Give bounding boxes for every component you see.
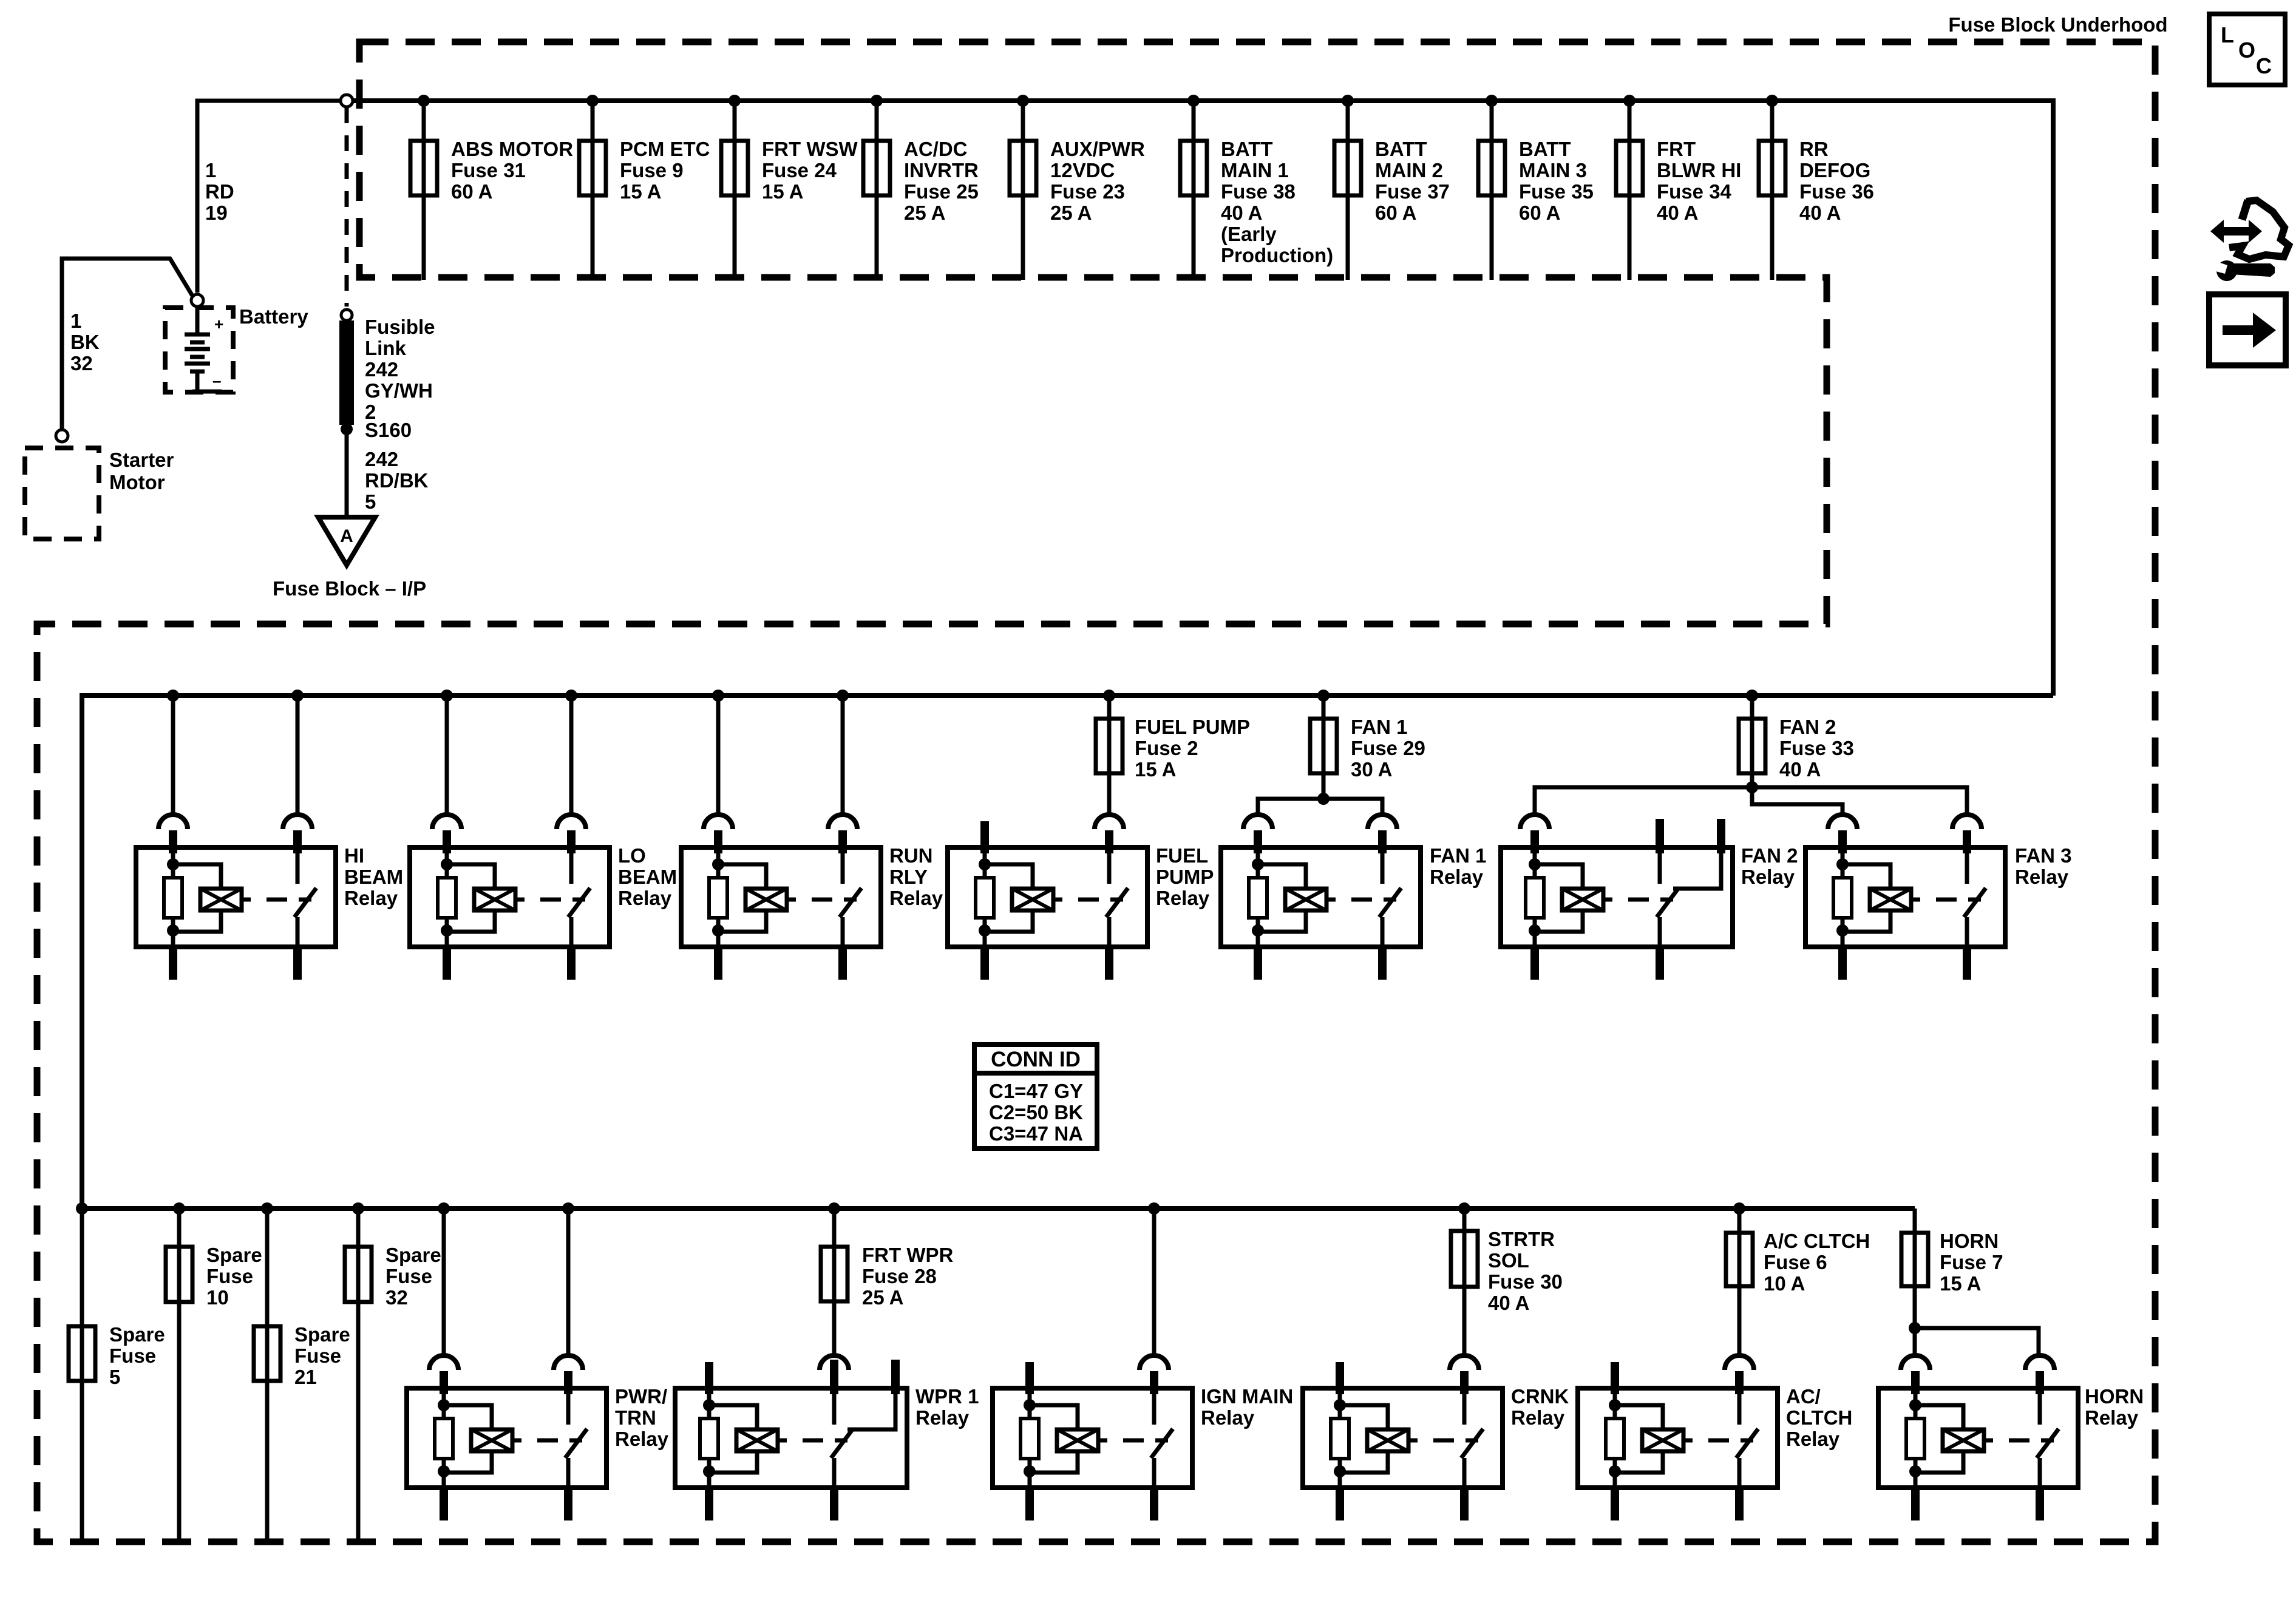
svg-text:C1=47 GY: C1=47 GY <box>989 1080 1083 1102</box>
node bus at HI BEAM coil <box>167 690 179 702</box>
svg-text:Relay: Relay <box>2015 866 2069 888</box>
svg-text:PWR/: PWR/ <box>615 1385 667 1408</box>
node top bus at BATT MAIN 1 fuse 38 <box>1187 95 1200 107</box>
svg-text:(Early: (Early <box>1221 223 1277 245</box>
svg-text:CONN ID: CONN ID <box>991 1048 1081 1071</box>
svg-text:60 A: 60 A <box>1519 202 1560 224</box>
wire and RR DEFOG fuse 36 <box>1759 101 1785 280</box>
node bus at RUN RLY switch <box>837 690 849 702</box>
svg-text:FAN 2: FAN 2 <box>1779 716 1836 738</box>
svg-text:INVRTR: INVRTR <box>904 159 979 181</box>
node bus at spare fuse 21 column <box>261 1202 273 1215</box>
node top bus at PCM ETC fuse 9 <box>586 95 599 107</box>
wire and AUX/PWR 12VDC fuse 23 <box>1010 101 1036 280</box>
node top bus at FRT WSW fuse 24 <box>729 95 741 107</box>
svg-text:Fuse 29: Fuse 29 <box>1351 737 1425 759</box>
svg-text:242: 242 <box>365 448 398 470</box>
svg-text:Relay: Relay <box>618 887 672 909</box>
svg-text:MAIN 3: MAIN 3 <box>1519 159 1587 181</box>
wire and HORN fuse 7 <box>1901 1209 1928 1355</box>
node bus at PWR/TRN switch <box>562 1202 574 1215</box>
svg-text:Fuse 7: Fuse 7 <box>1940 1251 2003 1273</box>
svg-text:Fuse 34: Fuse 34 <box>1657 180 1732 203</box>
svg-text:MAIN 1: MAIN 1 <box>1221 159 1289 181</box>
node battery positive terminal (open circle) <box>191 294 203 307</box>
wire 1 BK 32 starter to battery <box>62 259 193 429</box>
node splice on top bus (open circle) <box>341 95 353 107</box>
node top bus at BATT MAIN 2 fuse 37 <box>1342 95 1354 107</box>
svg-text:BATT: BATT <box>1221 138 1273 160</box>
svg-text:FAN 3: FAN 3 <box>2015 844 2072 867</box>
wire bus to RUN RLY switch <box>841 696 845 815</box>
svg-text:Relay: Relay <box>1741 866 1795 888</box>
svg-text:C: C <box>2256 53 2272 78</box>
node bus at HI BEAM switch <box>291 690 304 702</box>
wire and Spare Fuse 32 <box>345 1209 372 1540</box>
svg-text:Starter: Starter <box>109 449 174 471</box>
relay CRNK <box>1303 1355 1503 1520</box>
svg-text:25 A: 25 A <box>904 202 945 224</box>
svg-text:Fuse: Fuse <box>109 1344 156 1367</box>
wire and FRT WSW fuse 24 <box>721 101 748 280</box>
node bus at LO BEAM coil <box>441 690 453 702</box>
svg-text:10: 10 <box>206 1286 229 1309</box>
wire and A/C CLTCH fuse 6 <box>1726 1209 1753 1355</box>
wire battery positive to top bus <box>197 101 341 293</box>
node bus at PWR/TRN coil <box>438 1202 450 1215</box>
svg-text:5: 5 <box>365 490 376 513</box>
svg-text:Spare: Spare <box>109 1323 165 1346</box>
relay FAN 1 <box>1221 815 1421 980</box>
node bus at spare fuse 5 column <box>76 1202 88 1215</box>
wire bus to PWR/TRN coil <box>442 1209 446 1355</box>
svg-text:Fuse 28: Fuse 28 <box>862 1265 937 1287</box>
wire top bus from splice to right end <box>353 98 2053 103</box>
svg-text:ABS MOTOR: ABS MOTOR <box>451 138 573 160</box>
svg-text:Relay: Relay <box>915 1406 970 1429</box>
fusible link 242 element (thick bar) <box>339 320 354 425</box>
node bus at FAN 2 fuse 33 <box>1746 690 1758 702</box>
svg-text:19: 19 <box>205 202 228 224</box>
svg-text:Fuse 9: Fuse 9 <box>620 159 684 181</box>
svg-text:Fuse 38: Fuse 38 <box>1221 180 1296 203</box>
svg-text:Relay: Relay <box>1201 1406 1255 1429</box>
svg-text:Link: Link <box>365 337 406 359</box>
svg-text:WPR 1: WPR 1 <box>915 1385 979 1408</box>
relay RUN RLY <box>681 815 881 980</box>
svg-text:Relay: Relay <box>1786 1428 1840 1450</box>
svg-text:Fuse Block Underhood: Fuse Block Underhood <box>1948 13 2167 36</box>
svg-text:BLWR HI: BLWR HI <box>1657 159 1741 181</box>
off-page arrow box icon <box>2209 294 2286 365</box>
node top bus at AC/DC INVRTR fuse 25 <box>871 95 883 107</box>
svg-text:PCM ETC: PCM ETC <box>620 138 710 160</box>
svg-text:Relay: Relay <box>615 1428 669 1450</box>
svg-text:MAIN 2: MAIN 2 <box>1375 159 1443 181</box>
svg-text:AC/: AC/ <box>1786 1385 1821 1408</box>
svg-text:40 A: 40 A <box>1799 202 1841 224</box>
svg-text:32: 32 <box>385 1286 408 1309</box>
svg-text:–: – <box>212 371 221 390</box>
node below fuse 33 <box>1746 781 1758 793</box>
svg-text:RLY: RLY <box>889 866 928 888</box>
node S160 <box>341 423 353 435</box>
svg-text:CLTCH: CLTCH <box>1786 1406 1852 1429</box>
svg-text:O: O <box>2238 38 2255 63</box>
wire and FAN 2 fuse 33 <box>1739 696 1765 787</box>
svg-text:A: A <box>340 526 353 546</box>
svg-text:FRT WPR: FRT WPR <box>862 1244 953 1266</box>
svg-text:1: 1 <box>205 159 216 181</box>
service icon double arrow with part outline and wrench <box>2210 220 2262 243</box>
svg-text:BK: BK <box>70 331 100 353</box>
svg-text:Fuse 33: Fuse 33 <box>1779 737 1854 759</box>
svg-text:Spare: Spare <box>206 1244 262 1266</box>
svg-text:FAN 2: FAN 2 <box>1741 844 1798 867</box>
wire bus to PWR/TRN switch <box>566 1209 571 1355</box>
svg-text:FRT WSW: FRT WSW <box>762 138 858 160</box>
svg-text:32: 32 <box>70 352 93 375</box>
wire and BATT MAIN 1 fuse 38 <box>1180 101 1207 280</box>
node bus at FAN 1 fuse 29 <box>1317 690 1330 702</box>
lower feed bus wire <box>82 1206 1915 1211</box>
svg-text:Relay: Relay <box>344 887 398 909</box>
wire and FRT WPR fuse 28 <box>821 1209 847 1355</box>
node bus at FUEL PUMP fuse 2 <box>1103 690 1115 702</box>
wire and FAN 1 fuse 29 <box>1310 696 1337 799</box>
svg-text:L: L <box>2221 22 2234 47</box>
svg-text:Relay: Relay <box>1156 887 1210 909</box>
svg-text:60 A: 60 A <box>451 180 492 203</box>
relay LO BEAM <box>410 815 610 980</box>
svg-text:15 A: 15 A <box>620 180 661 203</box>
node bus at A/C CLTCH fuse 6 <box>1733 1202 1745 1215</box>
svg-text:242: 242 <box>365 358 398 381</box>
svg-text:RR: RR <box>1799 138 1829 160</box>
node top bus at AUX/PWR 12VDC fuse 23 <box>1017 95 1029 107</box>
svg-text:TRN: TRN <box>615 1406 656 1429</box>
svg-text:HORN: HORN <box>2085 1385 2144 1408</box>
svg-text:Battery: Battery <box>239 305 308 328</box>
LOC legend box <box>2209 14 2285 85</box>
svg-text:Fusible: Fusible <box>365 316 435 338</box>
svg-text:FRT: FRT <box>1657 138 1696 160</box>
relay FAN 2 <box>1501 815 1733 980</box>
svg-text:40 A: 40 A <box>1221 202 1262 224</box>
svg-text:40 A: 40 A <box>1779 758 1821 781</box>
node top bus at FRT BLWR HI fuse 34 <box>1623 95 1635 107</box>
relay HORN <box>1878 1355 2078 1520</box>
svg-text:Fuse 36: Fuse 36 <box>1799 180 1874 203</box>
relay IGN MAIN <box>993 1355 1192 1520</box>
wire top bus right drop to relay bus <box>2051 98 2056 696</box>
svg-text:1: 1 <box>70 310 81 332</box>
svg-text:FAN 1: FAN 1 <box>1430 844 1487 867</box>
wire bus to LO BEAM coil <box>445 696 449 815</box>
svg-text:Fuse 23: Fuse 23 <box>1050 180 1125 203</box>
relay HI BEAM <box>136 815 336 980</box>
svg-text:25 A: 25 A <box>862 1286 903 1309</box>
svg-text:Relay: Relay <box>1430 866 1484 888</box>
svg-text:AUX/PWR: AUX/PWR <box>1050 138 1145 160</box>
svg-text:Fuse: Fuse <box>206 1265 253 1287</box>
wire and FRT BLWR HI fuse 34 <box>1616 101 1643 280</box>
node top bus at RR DEFOG fuse 36 <box>1766 95 1778 107</box>
svg-text:DEFOG: DEFOG <box>1799 159 1870 181</box>
svg-text:BATT: BATT <box>1519 138 1571 160</box>
battery cell plates <box>185 307 222 392</box>
svg-text:Relay: Relay <box>889 887 943 909</box>
svg-text:S160: S160 <box>365 419 412 441</box>
wire and BATT MAIN 3 fuse 35 <box>1478 101 1505 280</box>
off-page connector A triangle to Fuse Block I/P <box>318 517 375 565</box>
svg-text:BEAM: BEAM <box>618 866 677 888</box>
relay feed bus wire <box>82 696 2053 1209</box>
svg-text:RD: RD <box>205 180 234 203</box>
node below HORN fuse 7 <box>1909 1322 1921 1334</box>
wire and FUEL PUMP fuse 2 <box>1096 696 1123 815</box>
svg-text:AC/DC: AC/DC <box>904 138 968 160</box>
svg-text:RUN: RUN <box>889 844 933 867</box>
node bus at STRTR SOL fuse 30 <box>1458 1202 1470 1215</box>
svg-text:Relay: Relay <box>1511 1406 1565 1429</box>
relay AC/CLTCH <box>1578 1355 1778 1520</box>
wire bus to HI BEAM switch <box>296 696 300 815</box>
node below fuse 29 <box>1317 793 1330 805</box>
svg-text:C3=47 NA: C3=47 NA <box>989 1122 1083 1145</box>
wire and BATT MAIN 2 fuse 37 <box>1334 101 1361 280</box>
svg-text:Fuse Block – I/P: Fuse Block – I/P <box>273 577 426 600</box>
svg-text:Fuse 31: Fuse 31 <box>451 159 526 181</box>
svg-text:40 A: 40 A <box>1657 202 1698 224</box>
svg-text:BATT: BATT <box>1375 138 1427 160</box>
svg-text:15 A: 15 A <box>1135 758 1176 781</box>
wire bus to IGN MAIN switch <box>1152 1209 1156 1355</box>
svg-text:Spare: Spare <box>294 1323 350 1346</box>
relay PWR/TRN <box>407 1355 606 1520</box>
node bus at LO BEAM switch <box>565 690 577 702</box>
wire and PCM ETC fuse 9 <box>579 101 606 280</box>
svg-text:15 A: 15 A <box>1940 1272 1981 1295</box>
dashed wire from splice down to fusible link <box>345 107 349 307</box>
svg-text:LO: LO <box>618 844 646 867</box>
svg-text:HI: HI <box>344 844 364 867</box>
svg-text:25 A: 25 A <box>1050 202 1092 224</box>
svg-text:C2=50 BK: C2=50 BK <box>989 1101 1083 1124</box>
svg-text:FUEL PUMP: FUEL PUMP <box>1135 716 1250 738</box>
svg-text:BEAM: BEAM <box>344 866 403 888</box>
node bus at spare fuse 10 column <box>173 1202 185 1215</box>
wire fuse 33 branch to FAN 2 coil and FAN 3 switch <box>1535 787 1967 815</box>
wire fuse 33 branch to FAN 3 coil <box>1752 787 1843 815</box>
wire S160 to off-page connector A <box>345 429 349 517</box>
svg-text:A/C CLTCH: A/C CLTCH <box>1764 1230 1870 1252</box>
fusible link top terminal (open circle) <box>341 310 352 320</box>
svg-text:FAN 1: FAN 1 <box>1351 716 1408 738</box>
relay WPR 1 <box>675 1355 907 1520</box>
svg-text:Fuse 2: Fuse 2 <box>1135 737 1198 759</box>
svg-text:+: + <box>214 315 223 333</box>
svg-text:GY/WH: GY/WH <box>365 379 433 402</box>
wire and Spare Fuse 21 <box>254 1209 280 1540</box>
node bus at RUN RLY coil <box>712 690 724 702</box>
svg-text:HORN: HORN <box>1940 1230 1999 1252</box>
node bus at FRT WPR fuse 28 <box>828 1202 840 1215</box>
svg-text:IGN MAIN: IGN MAIN <box>1201 1385 1293 1408</box>
CONN ID table <box>974 1045 1097 1148</box>
wire bus to LO BEAM switch <box>569 696 574 815</box>
svg-text:Fuse 6: Fuse 6 <box>1764 1251 1827 1273</box>
svg-text:Production): Production) <box>1221 244 1333 266</box>
wire bus to RUN RLY coil <box>716 696 721 815</box>
node bus at IGN MAIN switch <box>1148 1202 1160 1215</box>
relay FUEL PUMP <box>948 815 1147 980</box>
svg-text:Motor: Motor <box>109 471 165 493</box>
svg-text:60 A: 60 A <box>1375 202 1416 224</box>
svg-text:STRTR: STRTR <box>1488 1228 1555 1250</box>
starter motor node (open circle) <box>56 430 68 442</box>
node top bus at ABS MOTOR fuse 31 <box>418 95 430 107</box>
svg-text:RD/BK: RD/BK <box>365 469 429 492</box>
svg-text:Fuse 35: Fuse 35 <box>1519 180 1594 203</box>
svg-text:5: 5 <box>109 1366 120 1388</box>
svg-text:CRNK: CRNK <box>1511 1385 1569 1408</box>
svg-text:15 A: 15 A <box>762 180 803 203</box>
svg-text:Fuse: Fuse <box>294 1344 341 1367</box>
wire and Spare Fuse 5 <box>69 1209 95 1540</box>
wire and AC/DC INVRTR fuse 25 <box>863 101 890 280</box>
svg-text:SOL: SOL <box>1488 1249 1529 1272</box>
svg-text:Spare: Spare <box>385 1244 441 1266</box>
svg-text:PUMP: PUMP <box>1156 866 1214 888</box>
svg-text:30 A: 30 A <box>1351 758 1392 781</box>
svg-text:Fuse 25: Fuse 25 <box>904 180 979 203</box>
relay FAN 3 <box>1805 815 2005 980</box>
battery B+ dashed box <box>165 308 233 392</box>
starter motor dashed box <box>25 448 99 539</box>
wire and Spare Fuse 10 <box>166 1209 192 1540</box>
svg-text:Fuse 37: Fuse 37 <box>1375 180 1450 203</box>
svg-text:Fuse: Fuse <box>385 1265 432 1287</box>
svg-text:40 A: 40 A <box>1488 1292 1529 1314</box>
wire and STRTR SOL fuse 30 <box>1451 1209 1478 1355</box>
svg-text:Relay: Relay <box>2085 1406 2139 1429</box>
node bus at spare fuse 32 column <box>352 1202 364 1215</box>
node top bus at BATT MAIN 3 fuse 35 <box>1486 95 1498 107</box>
svg-text:12VDC: 12VDC <box>1050 159 1115 181</box>
svg-text:Fuse 30: Fuse 30 <box>1488 1270 1563 1293</box>
wire and ABS MOTOR fuse 31 <box>410 101 437 280</box>
svg-text:10 A: 10 A <box>1764 1272 1805 1295</box>
svg-text:Fuse 24: Fuse 24 <box>762 159 837 181</box>
wire fuse 7 branch to HORN switch <box>1915 1328 2039 1355</box>
wire fuse 29 branch to FAN 1 pins <box>1258 799 1382 815</box>
svg-text:21: 21 <box>294 1366 317 1388</box>
svg-text:FUEL: FUEL <box>1156 844 1208 867</box>
wire bus to HI BEAM coil <box>171 696 175 815</box>
